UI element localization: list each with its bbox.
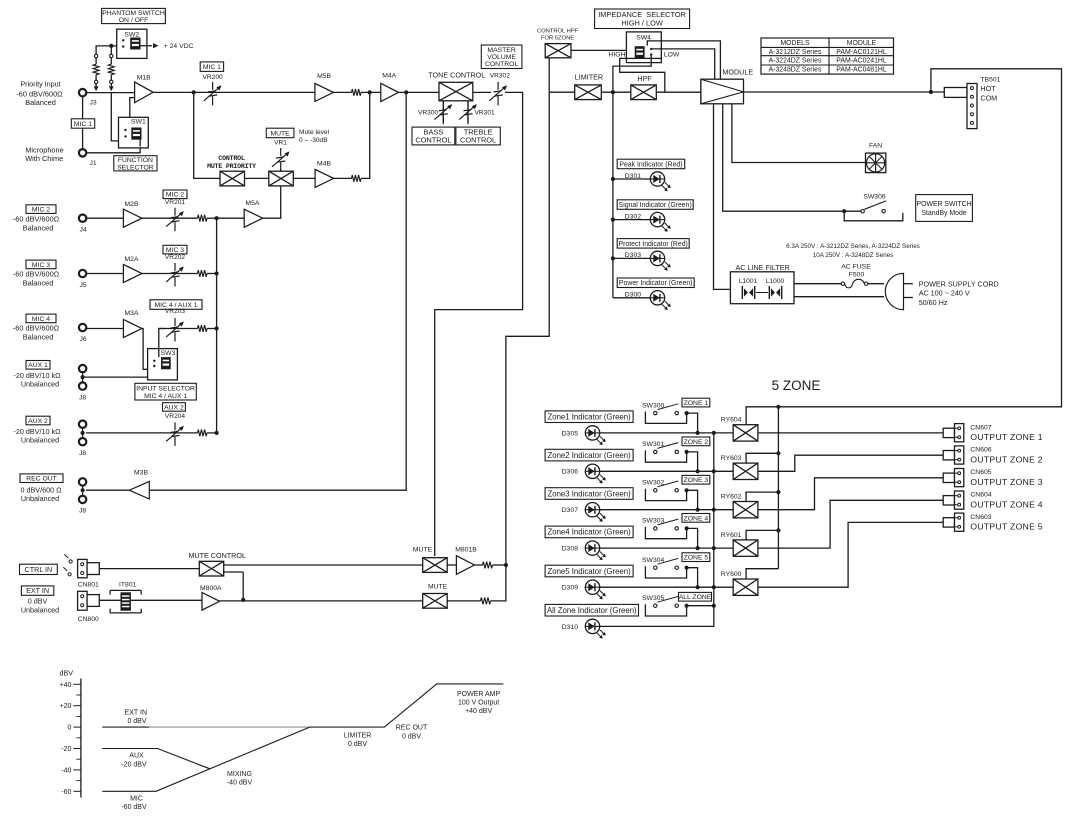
wire M801B to return bus	[493, 564, 506, 566]
svg-text:+40: +40	[60, 682, 72, 689]
module output wire	[744, 91, 945, 93]
svg-text:CN604: CN604	[970, 492, 991, 499]
indicator D300 label box	[617, 278, 694, 288]
svg-text:MUTE: MUTE	[413, 547, 433, 554]
label AUX 2 volume box	[163, 403, 186, 412]
junction bus MIC 2	[215, 216, 219, 220]
indicator label Zone4 Indicator (Green)	[545, 526, 633, 538]
svg-text:F500: F500	[849, 272, 865, 279]
jack J5	[79, 270, 86, 277]
graph AUX line	[102, 749, 210, 769]
svg-text:5 ZONE: 5 ZONE	[772, 378, 821, 393]
power rail filter	[714, 104, 731, 290]
wire hpf to module	[656, 91, 701, 93]
mute block lower	[423, 594, 448, 609]
svg-text:MUTE: MUTE	[428, 584, 448, 591]
jack J6	[79, 324, 86, 331]
svg-text:ZONE 2: ZONE 2	[684, 439, 709, 446]
wire J3 to J1 vertical	[82, 93, 84, 153]
indicator D303 label box	[617, 239, 689, 249]
wire SW4 high to hpf output	[620, 58, 665, 92]
treble control label box	[456, 127, 500, 145]
svg-text:HIGH / LOW: HIGH / LOW	[621, 19, 662, 28]
potentiometer VR1	[280, 170, 282, 172]
wire SW2 to +24VDC arrow	[141, 45, 153, 47]
svg-text:OUTPUT ZONE 3: OUTPUT ZONE 3	[970, 477, 1043, 487]
connector CN605	[943, 473, 954, 482]
svg-text:RY600: RY600	[721, 571, 742, 578]
wire control hpf to SW4	[571, 49, 635, 51]
switch SW4	[626, 32, 661, 59]
wire CN800 to IT801	[99, 599, 122, 601]
wire relay RY601 feed	[746, 530, 778, 540]
jack AUX2 upper	[79, 421, 86, 428]
svg-text:COM: COM	[980, 94, 997, 103]
svg-text:L1001: L1001	[739, 278, 758, 285]
junction D301	[611, 177, 615, 181]
svg-text:A-3248DZ Series: A-3248DZ Series	[769, 67, 822, 74]
svg-text:D310: D310	[562, 624, 578, 631]
power rail fan	[732, 104, 866, 163]
junction module output	[929, 90, 933, 94]
input selector SW3	[148, 349, 178, 380]
input MIC 2 label box	[26, 205, 56, 214]
SW4 bracket	[626, 58, 661, 62]
resistor after lower mute	[447, 600, 480, 602]
svg-text:D302: D302	[625, 213, 641, 220]
label MIC 4 / AUX 1 box	[150, 300, 202, 310]
svg-text:SW306: SW306	[863, 194, 886, 201]
svg-text:StandBy Mode: StandBy Mode	[921, 210, 966, 217]
svg-text:M801B: M801B	[455, 547, 477, 554]
svg-text:50/60 Hz: 50/60 Hz	[919, 298, 948, 307]
svg-text:M3B: M3B	[134, 470, 148, 477]
potentiometer VR302 master volume	[489, 82, 507, 106]
svg-text:SW1: SW1	[131, 119, 146, 126]
svg-text:Zone1 Indicator (Green): Zone1 Indicator (Green)	[547, 413, 631, 422]
zone relay bus	[713, 433, 715, 606]
indicator label Zone3 Indicator (Green)	[545, 488, 633, 500]
svg-text:0 dBV: 0 dBV	[402, 733, 421, 740]
jack J4	[79, 215, 86, 222]
wire relay RY600 feed	[746, 569, 778, 579]
mute control block	[199, 561, 223, 576]
svg-text:M4A: M4A	[382, 73, 396, 80]
wire M5A up to mute block	[263, 186, 281, 218]
zone select label ZONE 2	[687, 452, 698, 471]
svg-text:M2B: M2B	[125, 201, 139, 208]
wire M4B up to mix node	[361, 92, 370, 178]
svg-text:D303: D303	[625, 252, 641, 259]
power switch standby label box	[916, 195, 973, 222]
junction mix node	[368, 90, 372, 94]
svg-text:RY604: RY604	[721, 417, 742, 424]
wire control hpf down to limiter input	[548, 58, 550, 92]
wire relay RY600 to CN603	[758, 522, 944, 587]
svg-text:CN801: CN801	[78, 582, 99, 589]
wire CN801 to mute control	[99, 568, 199, 570]
svg-text:-60: -60	[61, 789, 71, 796]
zone feed bus	[777, 407, 779, 569]
svg-text:MODULE: MODULE	[722, 67, 753, 76]
jack REC OUT lower	[79, 496, 86, 503]
phantom feed right branch	[110, 46, 112, 54]
power plug	[885, 273, 903, 309]
svg-text:MUTE PRIORITY: MUTE PRIORITY	[207, 163, 256, 170]
svg-text:CONTROL HPF: CONTROL HPF	[537, 28, 579, 34]
svg-text:Unbalanced: Unbalanced	[21, 435, 59, 444]
svg-text:D300: D300	[625, 292, 641, 299]
svg-text:0 dBV: 0 dBV	[127, 718, 146, 725]
wire relay RY604 feed	[746, 407, 778, 425]
svg-text:D309: D309	[562, 585, 578, 592]
svg-text:MIC 4: MIC 4	[32, 316, 50, 323]
wire filter to plug lower	[794, 296, 884, 298]
wire J3 to M1B main input	[83, 92, 135, 94]
SW306 bracket	[844, 211, 903, 221]
svg-text:J6: J6	[80, 336, 87, 343]
svg-text:All Zone Indicator (Green): All Zone Indicator (Green)	[547, 606, 637, 615]
input AUX 2 label box	[26, 416, 50, 425]
svg-text:+20: +20	[60, 703, 72, 710]
wire AUX1 to SW3	[83, 369, 167, 377]
graph axis	[80, 679, 82, 798]
svg-text:MIC 2: MIC 2	[32, 207, 50, 214]
label MUTE	[266, 128, 294, 138]
wire to D302	[613, 219, 651, 221]
label MIC 3 box	[163, 245, 187, 254]
junction bus MIC 4	[215, 326, 219, 330]
SW306 blade	[864, 201, 886, 209]
svg-text:Zone5 Indicator (Green): Zone5 Indicator (Green)	[547, 567, 631, 576]
svg-text:-40 dBV: -40 dBV	[227, 780, 253, 787]
jack AUX1 lower	[79, 382, 86, 389]
svg-text:HPF: HPF	[637, 74, 652, 83]
connector CN607	[943, 428, 954, 437]
phantom feed left branch	[96, 46, 123, 54]
wire to D303	[613, 257, 651, 259]
junction bus AUX2	[215, 431, 219, 435]
svg-text:D308: D308	[562, 546, 578, 553]
wire M1B to VR200 to M5B	[153, 91, 315, 93]
switch SW1	[119, 117, 149, 148]
input MIC 3 label box	[26, 260, 56, 269]
svg-text:VR203: VR203	[165, 308, 185, 315]
svg-text:J4: J4	[80, 227, 87, 234]
wire relay RY601 to CN604	[758, 500, 944, 548]
wire relay RY603 feed	[746, 453, 778, 463]
svg-text:PAM-AC0121HL: PAM-AC0121HL	[836, 49, 887, 56]
zone select label ZONE 3	[687, 490, 698, 509]
svg-text:Protect Indicator (Red): Protect Indicator (Red)	[619, 241, 688, 248]
zone select label ZONE 4	[687, 528, 698, 548]
svg-text:Peak Indicator (Red): Peak Indicator (Red)	[619, 161, 682, 168]
svg-text:FOR 5ZONE: FOR 5ZONE	[541, 35, 574, 41]
wire mute control to upper mute	[224, 564, 423, 566]
svg-text:CTRL IN: CTRL IN	[25, 565, 53, 574]
wire relay RY602 feed	[746, 492, 778, 501]
svg-text:VR202: VR202	[165, 254, 185, 261]
wire LED row to relay	[599, 509, 733, 511]
svg-text:-60 dBV/600Ω: -60 dBV/600Ω	[13, 324, 60, 333]
svg-text:MASTER: MASTER	[487, 47, 515, 54]
wire all-zone LED to bus	[599, 606, 714, 627]
jack J3	[79, 89, 86, 96]
svg-text:CN603: CN603	[970, 514, 991, 521]
svg-text:EXT IN: EXT IN	[125, 710, 147, 717]
junction bus MIC 3	[215, 271, 219, 275]
wire SW3 output up to VR203	[159, 329, 166, 358]
svg-text:VR201: VR201	[165, 199, 185, 206]
svg-text:A-3212DZ Series: A-3212DZ Series	[769, 49, 822, 56]
svg-text:HOT: HOT	[980, 84, 996, 93]
svg-text:D305: D305	[562, 430, 578, 437]
svg-text:-60 dBV: -60 dBV	[121, 804, 147, 811]
svg-text:+ 24 VDC: + 24 VDC	[164, 43, 194, 50]
wire relay RY602 to CN605	[758, 478, 944, 510]
wire limiter to hpf	[601, 91, 631, 93]
svg-text:M1B: M1B	[137, 74, 151, 81]
svg-text:6.3A 250V : A-3212DZ Series, A: 6.3A 250V : A-3212DZ Series, A-3224DZ Se…	[786, 243, 920, 250]
svg-text:RY602: RY602	[721, 493, 742, 500]
junction REC OUT	[81, 488, 85, 492]
junction AUX2	[81, 431, 85, 435]
phantom switch label box	[102, 8, 166, 23]
zone select label ZONE 5	[687, 568, 698, 588]
svg-text:REC OUT: REC OUT	[26, 476, 57, 483]
potentiometer VR204	[166, 422, 184, 446]
svg-text:OUTPUT ZONE 5: OUTPUT ZONE 5	[970, 522, 1043, 532]
svg-text:AUX 2: AUX 2	[164, 404, 184, 411]
svg-text:PAM-AC0241HL: PAM-AC0241HL	[836, 58, 887, 65]
mute block upper	[423, 558, 448, 573]
svg-text:M5A: M5A	[245, 200, 259, 207]
svg-text:VR300: VR300	[418, 110, 438, 117]
svg-text:dBV: dBV	[60, 668, 74, 677]
svg-text:+40 dBV: +40 dBV	[465, 708, 492, 715]
svg-text:MIC 3: MIC 3	[32, 262, 50, 269]
svg-text:AUX 2: AUX 2	[28, 418, 48, 425]
wire J1 to SW1	[86, 147, 140, 153]
wire relay RY603 to CN606	[758, 455, 944, 471]
svg-text:0 – -30dB: 0 – -30dB	[299, 137, 328, 144]
wire J3 branch into SW1	[111, 93, 121, 141]
svg-text:M2A: M2A	[125, 256, 139, 263]
indicator label All Zone Indicator (Green)	[545, 604, 638, 616]
wire J5 to amp	[86, 273, 124, 275]
svg-text:ZONE 4: ZONE 4	[684, 515, 709, 522]
svg-text:-60 dBV/600Ω: -60 dBV/600Ω	[13, 270, 60, 279]
wire SW1 upper to M1B input	[130, 98, 135, 138]
svg-text:VR1: VR1	[274, 140, 287, 147]
wire lower mute to return bus	[491, 92, 550, 601]
input selector label box	[135, 383, 196, 400]
svg-text:LIMITER: LIMITER	[344, 732, 372, 739]
indicator label Zone1 Indicator (Green)	[545, 411, 633, 423]
ctrl in contact upper	[69, 560, 72, 563]
svg-text:CN605: CN605	[970, 469, 991, 476]
svg-text:LIMITER: LIMITER	[575, 72, 603, 81]
svg-text:FAN: FAN	[869, 143, 882, 150]
svg-text:EXT IN: EXT IN	[26, 586, 49, 595]
svg-text:Unbalanced: Unbalanced	[21, 494, 59, 503]
label MIC 2 box	[163, 190, 187, 199]
svg-text:D306: D306	[562, 469, 578, 476]
svg-text:RY603: RY603	[721, 455, 742, 462]
label MIC 1 between J3 and J1	[71, 119, 94, 128]
wire M3A output to SW3	[142, 329, 154, 370]
svg-text:RY601: RY601	[721, 532, 742, 539]
jack J1	[79, 149, 86, 156]
wire filter to fuse	[794, 283, 841, 285]
phantom resistor right	[110, 54, 113, 57]
wire to limiter	[549, 91, 575, 93]
connector CN606	[943, 451, 954, 460]
hpf block	[631, 85, 657, 100]
wire to mute priority	[194, 92, 220, 178]
svg-text:ON / OFF: ON / OFF	[119, 17, 148, 24]
svg-text:MIC 3: MIC 3	[166, 247, 184, 254]
wire LED row to relay	[599, 470, 733, 472]
wire LED row to relay	[599, 586, 733, 588]
junction rec out feed	[404, 90, 408, 94]
svg-text:CONTROL: CONTROL	[460, 136, 496, 145]
input bus vertical	[216, 218, 218, 433]
svg-text:VR200: VR200	[203, 74, 223, 81]
bass control label box	[412, 127, 455, 145]
jack REC OUT upper	[79, 478, 86, 485]
connector CN604	[943, 496, 954, 505]
indicator label Zone5 Indicator (Green)	[545, 565, 633, 577]
svg-text:CN607: CN607	[970, 424, 991, 431]
wire module output loop to zones	[778, 69, 1061, 407]
potentiometer VR300	[435, 101, 453, 125]
svg-text:D301: D301	[625, 173, 641, 180]
switch SW2	[117, 29, 147, 58]
wire to D300	[613, 297, 651, 299]
jack AUX2 lower	[79, 438, 86, 445]
resistor after M801B	[474, 564, 482, 566]
ctrl in label box	[20, 564, 58, 574]
potentiometer VR200	[204, 82, 222, 106]
graph EXT IN line	[102, 726, 149, 728]
svg-text:SW3: SW3	[161, 350, 176, 357]
svg-text:CONTROL: CONTROL	[485, 61, 518, 68]
svg-text:AC 100 ~ 240 V: AC 100 ~ 240 V	[919, 289, 970, 298]
svg-text:0 dBV: 0 dBV	[28, 596, 48, 605]
junction on ext line	[241, 598, 245, 602]
svg-text:J1: J1	[90, 160, 97, 167]
svg-text:J5: J5	[80, 282, 87, 289]
svg-text:M800A: M800A	[200, 585, 222, 592]
potentiometer VR301	[459, 101, 477, 125]
svg-text:100 V Output: 100 V Output	[458, 700, 499, 707]
wire to D301	[613, 178, 651, 180]
svg-text:MODULE: MODULE	[847, 40, 877, 47]
svg-text:POWER SWITCH: POWER SWITCH	[916, 201, 971, 208]
svg-text:TB501: TB501	[980, 76, 1000, 83]
potentiometer VR203	[159, 328, 198, 330]
jack AUX1 upper	[79, 365, 86, 372]
svg-text:Balanced: Balanced	[23, 333, 54, 342]
svg-text:Balanced: Balanced	[23, 223, 54, 232]
wire LED row to relay	[599, 432, 733, 434]
svg-text:Zone4 Indicator (Green): Zone4 Indicator (Green)	[547, 528, 631, 537]
svg-text:M3A: M3A	[125, 310, 139, 317]
wire AUX2 through VR204 to bus	[86, 432, 198, 434]
power rail switch	[723, 104, 845, 211]
input AUX 1 label box	[26, 361, 50, 370]
wire amp to bus	[142, 273, 198, 275]
svg-text:HIGH: HIGH	[609, 51, 626, 58]
svg-text:-60 dBV/600Ω: -60 dBV/600Ω	[16, 89, 63, 98]
svg-text:Mute level: Mute level	[299, 129, 330, 136]
svg-text:MIC 1: MIC 1	[203, 64, 221, 71]
svg-text:Balanced: Balanced	[23, 279, 54, 288]
ctrl in contact lower	[68, 573, 71, 576]
tone control block	[439, 82, 473, 101]
ext in label box	[21, 586, 53, 595]
svg-text:-60 dBV/600Ω: -60 dBV/600Ω	[13, 214, 60, 223]
wire J6 to M3A	[86, 328, 124, 330]
svg-text:J8: J8	[79, 508, 86, 515]
svg-text:MUTE CONTROL: MUTE CONTROL	[188, 551, 246, 560]
wire rec out	[86, 489, 129, 491]
svg-text:Balanced: Balanced	[25, 98, 56, 107]
junction after M1B	[192, 90, 196, 94]
limiter block	[575, 85, 602, 100]
svg-text:POWER SUPPLY CORD: POWER SUPPLY CORD	[919, 279, 999, 288]
zone select label ZONE 1	[687, 413, 698, 433]
zone select label ALL ZONE	[687, 605, 714, 607]
wire SW4 top to module	[647, 41, 720, 79]
svg-text:ALL ZONE: ALL ZONE	[679, 594, 712, 601]
impedance selector label box	[595, 9, 690, 29]
svg-text:Zone2 Indicator (Green): Zone2 Indicator (Green)	[547, 451, 631, 460]
svg-text:FUNCTION: FUNCTION	[118, 157, 153, 164]
mute level block	[269, 171, 294, 186]
svg-text:OUTPUT ZONE 1: OUTPUT ZONE 1	[970, 432, 1043, 442]
svg-text:-20 dBV: -20 dBV	[121, 761, 147, 768]
treble control stub	[467, 101, 469, 123]
svg-text:MIC 1: MIC 1	[74, 121, 92, 128]
inductor L1001	[741, 286, 743, 299]
svg-text:Unbalanced: Unbalanced	[21, 605, 59, 614]
wire rec out feed from main line	[149, 92, 406, 490]
wire LED row to relay	[599, 547, 733, 549]
svg-text:0: 0	[67, 725, 71, 732]
svg-text:With Chime: With Chime	[25, 154, 63, 163]
resistor after M5B	[352, 89, 362, 96]
resistor after M4B	[334, 177, 352, 179]
svg-text:ZONE 5: ZONE 5	[684, 555, 709, 562]
svg-text:AUX: AUX	[129, 753, 144, 760]
svg-text:J3: J3	[90, 99, 97, 106]
svg-text:REC OUT: REC OUT	[396, 725, 428, 732]
svg-text:ZONE 3: ZONE 3	[684, 477, 709, 484]
svg-text:M5B: M5B	[317, 73, 331, 80]
wire VR302 down-left-down to mute	[435, 92, 523, 556]
svg-text:J8: J8	[79, 395, 86, 402]
svg-text:CN606: CN606	[970, 447, 991, 454]
indicator D301 label box	[617, 159, 685, 169]
svg-text:A-3224DZ Series: A-3224DZ Series	[769, 58, 822, 65]
AC line filter box	[730, 272, 794, 304]
indicator feed bus	[612, 92, 614, 298]
svg-text:MIC 2: MIC 2	[166, 192, 184, 199]
junction limiter out	[611, 90, 615, 94]
svg-text:VR302: VR302	[490, 73, 510, 80]
